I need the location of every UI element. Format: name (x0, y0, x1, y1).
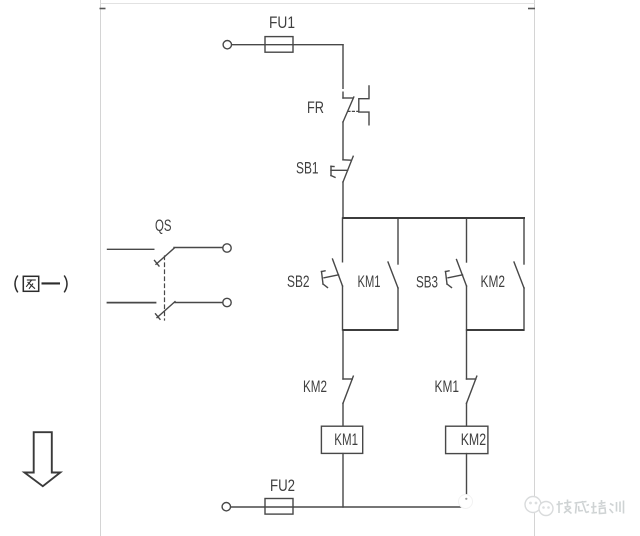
svg-text:SB2: SB2 (287, 272, 310, 291)
svg-text:FU1: FU1 (269, 13, 295, 32)
svg-text:KM1: KM1 (334, 430, 358, 449)
svg-text:KM2: KM2 (481, 272, 506, 291)
svg-text:FU2: FU2 (270, 476, 295, 495)
svg-text:QS: QS (155, 216, 172, 235)
svg-text:SB3: SB3 (416, 273, 438, 292)
svg-text:SB1: SB1 (296, 159, 319, 178)
svg-text:KM1: KM1 (358, 272, 381, 291)
svg-text:KM1: KM1 (435, 377, 460, 396)
svg-text:KM2: KM2 (461, 430, 486, 449)
svg-text:KM2: KM2 (303, 377, 327, 396)
svg-text:FR: FR (307, 98, 324, 117)
